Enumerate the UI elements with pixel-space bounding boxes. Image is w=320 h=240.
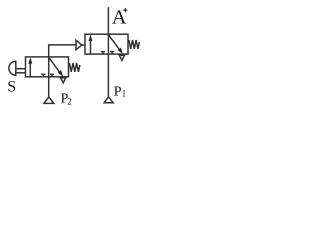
wire: V2 outlet riser to A+ xyxy=(107,7,109,34)
valve V1 blocked port T (right box) xyxy=(50,74,54,77)
valve V1 exhaust triangle (port 3) xyxy=(61,78,66,83)
valve V1 flow arrow (left box, 1->2) xyxy=(28,57,32,77)
valve V2 position divider xyxy=(107,34,109,54)
valve V2 blocked port T (left box) xyxy=(101,52,105,55)
svg-text:2: 2 xyxy=(67,96,72,106)
valve V2 flow arrow (left box, 1->2) xyxy=(89,35,93,55)
valve V1 exhaust path diagonal with arrow (right box, 2->3) xyxy=(49,57,63,76)
wire: V1 outlet riser to pilot line xyxy=(49,45,76,57)
valve V2 exhaust path diagonal with arrow (right box, 2->3) xyxy=(108,35,122,54)
valve V1 body (3/2-way pushbutton valve) xyxy=(26,57,69,77)
valve V1 return spring xyxy=(69,63,80,72)
valve V1 blocked port T (left box) xyxy=(41,74,45,77)
pressure source P1 triangle xyxy=(104,97,113,103)
valve V1 pushbutton actuator S xyxy=(9,61,26,75)
svg-text:P: P xyxy=(114,85,122,100)
svg-text:S: S xyxy=(7,78,16,95)
valve V2 exhaust triangle (port 3) xyxy=(119,55,124,60)
pilot actuator triangle of valve V2 xyxy=(76,40,85,50)
valve V2 blocked port T (right box) xyxy=(110,52,114,55)
wire: V1 supply line xyxy=(48,77,50,97)
wire: V2 supply line xyxy=(107,54,109,97)
pressure source P2 triangle xyxy=(44,97,54,103)
svg-text:1: 1 xyxy=(122,88,127,98)
valve V1 position divider xyxy=(48,57,50,77)
valve V2 body (3/2-way pilot valve) xyxy=(85,34,128,54)
valve V2 return spring xyxy=(129,40,140,49)
